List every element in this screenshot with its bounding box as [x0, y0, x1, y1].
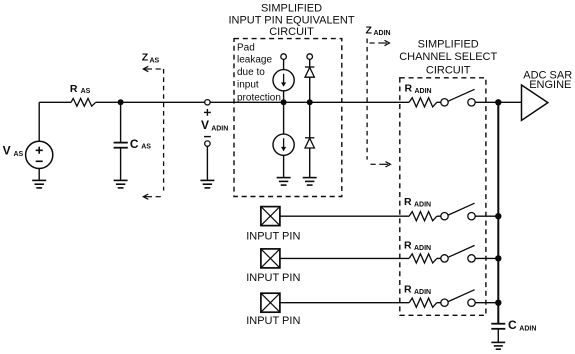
label: INPUT PIN (channel 3) [246, 272, 300, 284]
node junction: bus at channel 3 [495, 255, 501, 261]
svg-text:INPUT PIN: INPUT PIN [246, 315, 300, 327]
Z_ADIN impedance arrow (top, pointing right) [370, 40, 390, 45]
svg-text:ENGINE: ENGINE [529, 79, 571, 91]
ground (C_ADIN) [491, 342, 505, 349]
wire: I2 to ground [283, 155, 285, 177]
svg-text:INPUT PIN EQUIVALENT: INPUT PIN EQUIVALENT [228, 15, 354, 27]
net label V_ADIN [201, 118, 228, 132]
current source I2 (pad leakage, arrow down) [273, 134, 294, 155]
svg-text:AS: AS [81, 88, 91, 95]
value label V_AS [3, 144, 24, 158]
svg-text:ADIN: ADIN [374, 30, 391, 37]
svg-text:leakage: leakage [237, 55, 272, 66]
terminal (protection diode branch top) [307, 54, 313, 60]
switch S3 (channel select, open) [441, 245, 475, 262]
label: ADC SAR ENGINE [523, 70, 572, 92]
svg-text:CIRCUIT: CIRCUIT [269, 26, 314, 38]
net label Z_ADIN [366, 24, 391, 37]
wire: switch S1 to ADC input node [475, 101, 521, 103]
resistor R_AS [71, 98, 96, 106]
node junction at current source branch [281, 99, 287, 105]
wire: R_ADIN to switch (channel 2) [437, 215, 441, 217]
svg-text:R: R [404, 239, 412, 251]
svg-text:ADIN: ADIN [519, 325, 536, 332]
ground (current source branch) [277, 178, 291, 186]
net label Z_AS [142, 51, 160, 64]
wire: terminal to diode D1 [309, 59, 311, 67]
svg-text:input: input [237, 80, 259, 91]
svg-text:Z: Z [142, 51, 149, 63]
value label C_AS [130, 137, 151, 151]
voltage source V_AS [26, 141, 53, 168]
svg-text:ADIN: ADIN [414, 289, 431, 296]
resistor R_ADIN (channel 2) [409, 212, 437, 221]
wire: main node segment V_AS to R_AS [39, 101, 71, 103]
wire: V_AS source to main node [38, 102, 40, 141]
wire: main net to diode D2 [309, 102, 311, 138]
svg-text:CHANNEL SELECT: CHANNEL SELECT [399, 51, 497, 63]
input pin box (channel 2) [261, 207, 280, 226]
svg-text:ADIN: ADIN [415, 88, 432, 95]
value label C_ADIN [508, 318, 536, 333]
value label R_ADIN (channel 3) [404, 239, 431, 252]
node junction: bus at channel 2 [495, 213, 501, 219]
input pin box (channel 4) [261, 293, 280, 312]
Z_ADIN impedance arrow (bottom, pointing right) [371, 162, 391, 167]
svg-text:ADIN: ADIN [211, 125, 228, 132]
title: SIMPLIFIED CHANNEL SELECT CIRCUIT [399, 39, 497, 77]
wire: switch S3 to bus [475, 257, 498, 259]
V_ADIN plus mark [204, 109, 211, 116]
resistor R_ADIN (channel 3) [409, 254, 437, 263]
wire: C_AS to ground [120, 148, 122, 181]
value label R_AS [70, 83, 91, 95]
wire: terminal to current source I1 [283, 59, 285, 69]
wire: input pin to R_ADIN (channel 2) [280, 215, 409, 217]
diode D1 (protection, cathode up) [305, 67, 314, 77]
label: INPUT PIN (channel 2) [246, 231, 300, 243]
wire: C_ADIN to ground [497, 329, 499, 343]
ground (C_AS) [114, 180, 128, 188]
svg-text:SIMPLIFIED: SIMPLIFIED [418, 39, 479, 51]
value label R_ADIN (channel 1) [405, 83, 432, 96]
value label R_ADIN (channel 4) [404, 284, 431, 297]
ground (V_ADIN) [200, 180, 214, 188]
dashed box: simplified channel select circuit [400, 78, 486, 315]
note: Pad leakage due to input protection [237, 42, 281, 103]
V_ADIN minus mark [204, 136, 211, 138]
switch S4 (channel select, open) [441, 290, 475, 307]
switch S2 (channel select, open) [441, 203, 475, 220]
svg-text:R: R [404, 196, 412, 208]
wire: R_ADIN to switch (channel 1) [437, 101, 441, 103]
svg-text:C: C [130, 137, 139, 151]
wire: main analog input net (R_AS to R_ADIN) [96, 101, 409, 103]
node junction at C_AS [118, 99, 124, 105]
svg-text:ADIN: ADIN [414, 201, 431, 208]
Z_AS impedance arrow (bottom, pointing left) [143, 194, 161, 199]
V_ADIN lower terminal [205, 141, 210, 146]
svg-text:AS: AS [150, 57, 160, 64]
node junction: bus at channel 4 [495, 300, 501, 306]
node junction at diode branch [307, 99, 313, 105]
capacitor C_ADIN [491, 324, 505, 329]
wire: input pin to R_ADIN (channel 4) [280, 302, 409, 304]
Z_ADIN boundary dashed line [366, 39, 368, 160]
node V_ADIN terminal on wire [205, 100, 210, 105]
svg-text:Pad: Pad [237, 42, 255, 53]
op-amp U1: ADC SAR engine input buffer [522, 85, 548, 120]
wire: V_ADIN lower terminal to ground [206, 146, 208, 180]
wire: R_ADIN to switch (channel 3) [437, 257, 441, 259]
switch S1 (channel select, open) [441, 89, 475, 106]
diode D2 (protection, cathode up) [305, 138, 314, 148]
wire: ADC input bus (vertical) [497, 102, 499, 323]
svg-text:CIRCUIT: CIRCUIT [426, 64, 471, 76]
input pin box (channel 3) [261, 249, 280, 268]
wire: D1 to main net [309, 77, 311, 102]
svg-text:AS: AS [141, 144, 151, 151]
wire: D2 to ground [309, 148, 311, 178]
svg-text:Z: Z [366, 24, 373, 36]
resistor R_ADIN (channel 4) [409, 298, 437, 307]
label: INPUT PIN (channel 4) [246, 315, 300, 327]
value label R_ADIN (channel 2) [404, 196, 431, 209]
svg-text:R: R [404, 284, 412, 296]
wire: main net to current source I2 [283, 102, 285, 134]
title: SIMPLIFIED INPUT PIN EQUIVALENT CIRCUIT [228, 3, 354, 38]
wire: junction to C_AS top plate [120, 102, 122, 142]
dashed box: simplified input pin equivalent circuit [234, 39, 342, 197]
svg-text:V: V [201, 118, 209, 132]
wire: I1 to main net [283, 91, 285, 103]
Z_AS impedance arrow (top, pointing left) [143, 66, 161, 71]
node junction: ADC input bus at channel 1 [495, 99, 501, 105]
ground (V_AS) [32, 180, 46, 188]
wire: switch S4 to bus [475, 302, 498, 304]
svg-text:C: C [508, 318, 517, 332]
svg-text:INPUT PIN: INPUT PIN [246, 231, 300, 243]
wire: V_AS to ground [38, 169, 40, 181]
svg-text:SIMPLIFIED: SIMPLIFIED [261, 3, 322, 15]
resistor R_ADIN (channel 1) [409, 98, 437, 107]
svg-text:ADIN: ADIN [414, 245, 431, 252]
capacitor C_AS [114, 143, 128, 148]
svg-text:R: R [405, 83, 413, 95]
svg-text:INPUT PIN: INPUT PIN [246, 272, 300, 284]
wire: R_ADIN to switch (channel 4) [437, 302, 441, 304]
svg-text:V: V [3, 144, 11, 158]
current source I1 (pad leakage, arrow down) [273, 70, 294, 91]
ground (diode branch) [303, 178, 317, 186]
svg-text:protection: protection [237, 93, 281, 104]
svg-text:due to: due to [237, 67, 265, 78]
Z_AS boundary dashed line [163, 69, 165, 191]
wire: input pin to R_ADIN (channel 3) [280, 257, 409, 259]
svg-text:R: R [70, 83, 78, 95]
svg-text:AS: AS [14, 151, 24, 158]
wire: switch S2 to bus [475, 215, 498, 217]
terminal (current source branch top) [281, 54, 287, 60]
